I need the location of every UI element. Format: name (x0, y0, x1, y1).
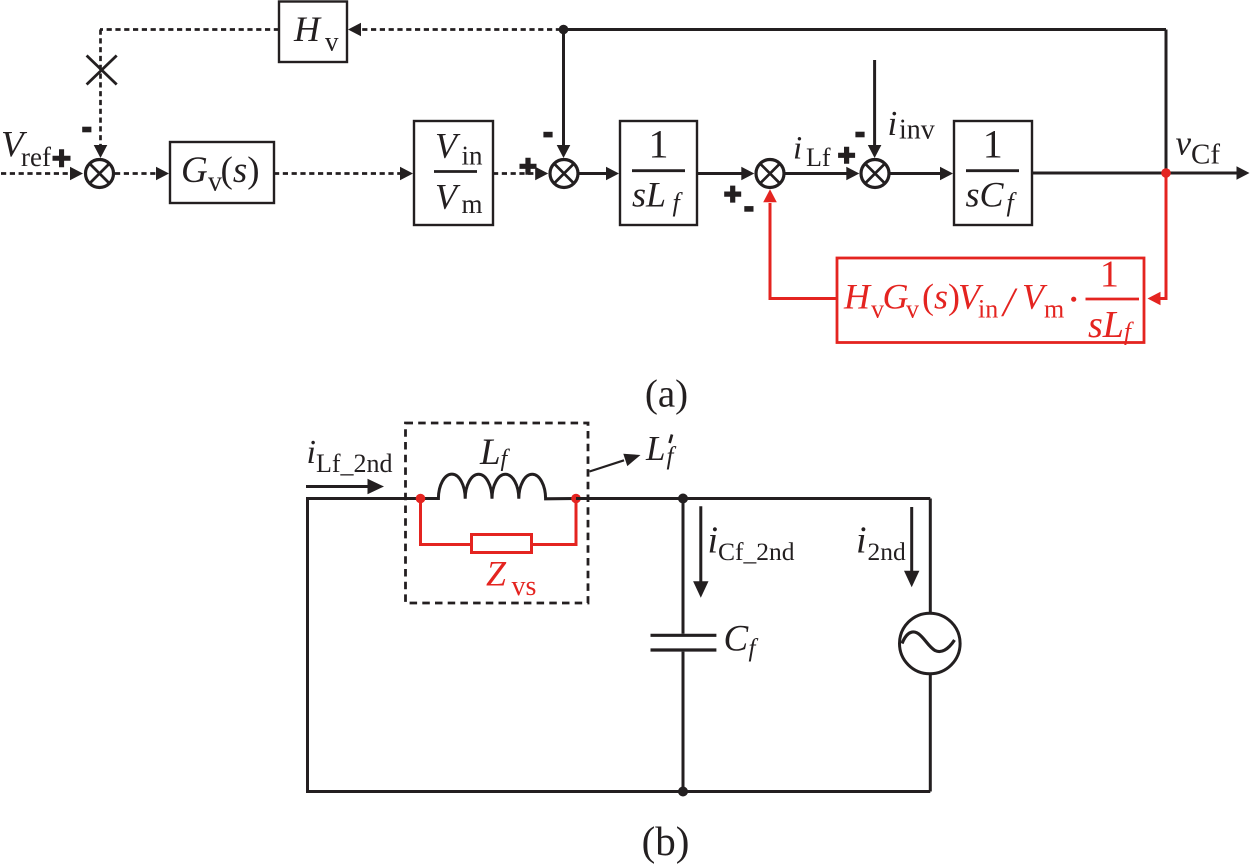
node label i_2nd (856, 519, 906, 566)
svg-text:(s): (s) (221, 150, 260, 191)
svg-text:C: C (724, 618, 750, 659)
svg-text:m: m (1044, 295, 1064, 324)
svg-text:sC: sC (966, 174, 1005, 214)
wire: dashed horizontal from H_v to corner (100, 28, 279, 31)
block G_v(s) (170, 142, 274, 203)
plus sign at S3 left input (724, 186, 741, 203)
wire: C_f branch lower vertical (682, 652, 685, 792)
wire: red parallel branch through Z_vs (421, 500, 577, 545)
current arrow i_2nd (904, 507, 919, 587)
resistor Z_vs (red box) (472, 535, 532, 553)
value label C_f (724, 618, 759, 662)
svg-text:H: H (843, 277, 872, 317)
node label v_Cf (1176, 124, 1221, 171)
minus sign above S4 (855, 132, 864, 138)
summing junction S2 (550, 160, 578, 188)
node v_Cf junction dot (red) (1161, 168, 1171, 178)
wire: right vertical upper (929, 499, 932, 614)
block V_in/V_m (414, 121, 493, 225)
plus sign at S1 input (53, 149, 71, 167)
wire: solid from S2 to 1/(sL_f) block (578, 167, 619, 181)
block (red) H_vG_v(s)V_in/V_m . 1/(sL_f) (837, 253, 1144, 346)
wire: C_f branch upper vertical (682, 499, 685, 634)
wire: top middle horizontal to right side (576, 497, 930, 500)
svg-text:1: 1 (649, 122, 669, 167)
inductor L_f (421, 474, 577, 499)
wire: solid from S3 to S4 (784, 167, 859, 181)
wire: outer loop (top-left, left side, bottom) (308, 499, 931, 792)
node label L_f prime (645, 429, 677, 470)
pointer arrow to L_f prime (590, 454, 641, 472)
svg-text:v: v (906, 295, 919, 324)
svg-text:in: in (978, 295, 998, 324)
wire: red from red block output to S3 (arrow points up) (763, 189, 837, 298)
svg-text:i: i (793, 130, 802, 166)
svg-text:H: H (293, 9, 322, 49)
wire: dashed from G_v to V_in/V_m block (274, 167, 413, 181)
current arrow i_Lf_2nd (306, 479, 384, 494)
svg-text:inv: inv (899, 115, 935, 146)
wire: dashed from V_in/V_m to S2 (493, 167, 548, 181)
wire: solid from S4 to 1/(sC_f) block (889, 167, 953, 181)
node label V_ref (1, 125, 51, 173)
svg-text:(a): (a) (645, 373, 688, 416)
node dot: bottom junction of C_f branch (678, 787, 688, 797)
current arrow i_Cf_2nd (693, 506, 708, 598)
node dot red (right terminal of Z_vs) (571, 494, 581, 504)
svg-text:i: i (307, 434, 316, 471)
summing junction S1 (86, 160, 114, 188)
node label i_inv (888, 104, 935, 146)
minus sign above S2 (543, 132, 552, 138)
wire: dashed from S1 to G_v block (115, 167, 169, 181)
svg-text:L: L (645, 429, 665, 468)
wire: dashed input line into S1 (1, 167, 83, 181)
node label i_Lf (793, 130, 831, 172)
X break mark on feedback path (87, 56, 117, 85)
summing junction S3 (756, 160, 784, 188)
value label Z_vs (red) (486, 554, 536, 603)
block H_v (279, 2, 347, 63)
svg-text:Z: Z (486, 554, 507, 594)
minus sign at S3 bottom input (744, 206, 753, 212)
svg-text:sL: sL (632, 174, 666, 214)
svg-text:i: i (708, 519, 719, 561)
svg-text:2nd: 2nd (868, 537, 907, 566)
svg-text:i: i (888, 104, 898, 143)
svg-text:Lf_2nd: Lf_2nd (316, 449, 393, 478)
svg-text:vs: vs (512, 571, 537, 602)
wire: solid vertical i_inv into S4 (868, 60, 882, 158)
wire: solid from 1/(sL_f) to S3 (697, 167, 754, 181)
wire: red from v_Cf node down into red block (arrow points left) (1148, 176, 1167, 305)
wire: solid top feedback line from node A to right corner (564, 28, 1167, 31)
svg-text:ref: ref (21, 142, 51, 172)
svg-text:i: i (856, 519, 867, 561)
wire: solid vertical from node A down into S2 (557, 30, 571, 159)
wire: right vertical lower (929, 674, 932, 792)
plus sign at S4 input (838, 147, 855, 164)
wire: dashed from node A to H_v input (arrow points left) (348, 23, 561, 37)
wire: dashed vertical feedback into S1 top (94, 30, 108, 159)
svg-text:v: v (1176, 124, 1192, 163)
block 1/(sC_f) (954, 121, 1032, 225)
svg-text:G: G (883, 277, 909, 317)
capacitor C_f (651, 635, 717, 650)
summing junction S4 (861, 160, 889, 188)
value label L_f (479, 432, 511, 473)
wire: solid output line with v_Cf arrow (1032, 166, 1250, 180)
svg-text:in: in (462, 141, 484, 171)
svg-text:(b): (b) (642, 818, 690, 864)
svg-text:Lf: Lf (806, 143, 831, 172)
wire: solid right vertical down to v_Cf node (1165, 30, 1168, 173)
node label i_Lf_2nd (307, 434, 393, 478)
block 1/(sL_f) (620, 121, 697, 225)
plus sign at S2 input (520, 158, 537, 175)
current source i_2nd (circle with sine) (900, 613, 961, 674)
svg-text:G: G (181, 150, 208, 191)
svg-text:v: v (325, 27, 339, 57)
svg-text:1: 1 (983, 122, 1003, 167)
minus sign above S1 (82, 127, 91, 133)
svg-text:Cf_2nd: Cf_2nd (718, 537, 795, 566)
node dot red (left terminal of Z_vs) (416, 494, 426, 504)
dashed box around L_f and Z_vs (406, 423, 589, 603)
svg-text:Cf: Cf (1191, 139, 1220, 171)
svg-text:sL: sL (1088, 304, 1124, 346)
svg-text:1: 1 (1100, 253, 1119, 295)
svg-text:L: L (479, 432, 501, 473)
node label i_Cf_2nd (708, 519, 795, 566)
node dot: top junction of C_f branch (678, 494, 688, 504)
svg-text:m: m (462, 189, 483, 219)
svg-text:(s): (s) (922, 277, 960, 317)
node A junction dot (559, 25, 569, 35)
